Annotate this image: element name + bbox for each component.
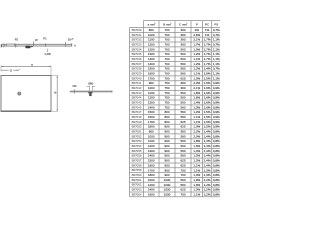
svg-text:1,2%: 1,2% <box>204 178 211 182</box>
drain detail floor line bottom <box>70 91 113 93</box>
svg-text:750: 750 <box>164 105 169 109</box>
svg-text:2,2%: 2,2% <box>193 130 200 134</box>
svg-text:2,3%: 2,3% <box>193 81 200 85</box>
plan drain outer circle <box>18 92 21 95</box>
svg-text:B97062: B97062 <box>132 183 142 187</box>
svg-text:1,6%: 1,6% <box>204 81 211 85</box>
svg-text:700: 700 <box>180 168 185 172</box>
svg-text:1,4%: 1,4% <box>204 154 211 158</box>
svg-text:1500: 1500 <box>148 67 155 71</box>
svg-text:625: 625 <box>180 159 185 163</box>
svg-text:1%: 1% <box>72 84 77 88</box>
svg-text:360: 360 <box>180 134 185 138</box>
svg-text:B97061: B97061 <box>132 178 142 182</box>
svg-text:B97032: B97032 <box>132 38 142 42</box>
svg-text:360: 360 <box>180 81 185 85</box>
svg-text:1,4%: 1,4% <box>204 139 211 143</box>
plan drain inner circle <box>19 93 20 94</box>
drain detail left tick <box>73 89 75 93</box>
svg-text:B97054: B97054 <box>132 144 142 148</box>
svg-text:1600: 1600 <box>148 163 155 167</box>
svg-text:1,2%: 1,2% <box>193 67 200 71</box>
svg-text:1100: 1100 <box>148 38 155 42</box>
svg-text:1700: 1700 <box>148 76 155 80</box>
svg-text:500: 500 <box>180 96 185 100</box>
dim O line right part <box>13 69 18 71</box>
svg-text:B97038: B97038 <box>132 67 142 71</box>
side view raised rim box <box>7 44 15 46</box>
svg-text:700: 700 <box>164 47 169 51</box>
svg-text:1400: 1400 <box>148 57 155 61</box>
svg-text:500: 500 <box>180 144 185 148</box>
dia90 right extension <box>91 86 93 92</box>
svg-text:800: 800 <box>149 28 154 32</box>
svg-text:1,5%: 1,5% <box>193 47 200 51</box>
svg-text:0,9%: 0,9% <box>213 110 220 114</box>
svg-text:700: 700 <box>180 192 185 196</box>
svg-text:B97053: B97053 <box>132 139 142 143</box>
svg-text:1,4%: 1,4% <box>204 134 211 138</box>
svg-text:B97034: B97034 <box>132 47 142 51</box>
svg-text:1400: 1400 <box>148 188 155 192</box>
svg-text:B97039: B97039 <box>132 71 142 75</box>
svg-text:1,4%: 1,4% <box>204 149 211 153</box>
svg-text:900: 900 <box>164 163 169 167</box>
svg-text:1300: 1300 <box>148 101 155 105</box>
svg-text:1,3%: 1,3% <box>193 105 200 109</box>
svg-text:1,5%: 1,5% <box>204 120 211 124</box>
svg-text:1,2%: 1,2% <box>193 62 200 66</box>
svg-text:0,8%: 0,8% <box>213 163 220 167</box>
svg-text:PS: PS <box>214 22 218 26</box>
svg-text:1,5%: 1,5% <box>204 110 211 114</box>
svg-text:900: 900 <box>149 81 154 85</box>
svg-text:800: 800 <box>164 125 169 129</box>
side view tick t1 <box>3 44 5 48</box>
svg-text:1,6%: 1,6% <box>193 144 200 148</box>
svg-text:700: 700 <box>164 42 169 46</box>
svg-text:625: 625 <box>180 120 185 124</box>
svg-text:900: 900 <box>164 159 169 163</box>
svg-text:1300: 1300 <box>148 149 155 153</box>
svg-text:700: 700 <box>164 52 169 56</box>
side view extension line W <box>33 41 35 46</box>
svg-text:750: 750 <box>164 96 169 100</box>
svg-text:900: 900 <box>164 149 169 153</box>
svg-text:1,2%: 1,2% <box>193 159 200 163</box>
svg-text:500: 500 <box>180 52 185 56</box>
dim a right extension line <box>50 65 52 75</box>
svg-text:1,7%: 1,7% <box>204 52 211 56</box>
svg-text:0,9%: 0,9% <box>213 101 220 105</box>
svg-text:B97059: B97059 <box>132 168 142 172</box>
svg-text:1,1%: 1,1% <box>193 57 200 61</box>
svg-text:1,2%: 1,2% <box>193 110 200 114</box>
svg-text:1,3%: 1,3% <box>204 173 211 177</box>
svg-text:0,7%: 0,7% <box>213 33 220 37</box>
side view right end tick <box>71 43 73 46</box>
svg-text:625: 625 <box>180 163 185 167</box>
svg-text:1,1%: 1,1% <box>193 168 200 172</box>
side view tick t2 <box>15 44 17 48</box>
dim a left arrow <box>1 66 3 67</box>
svg-text:0,8%: 0,8% <box>213 149 220 153</box>
svg-text:Ø90: Ø90 <box>88 82 93 86</box>
svg-text:1200: 1200 <box>148 144 155 148</box>
svg-text:1,1%: 1,1% <box>213 57 220 61</box>
svg-text:0,8%: 0,8% <box>213 144 220 148</box>
side view tick t3 <box>44 43 46 47</box>
svg-text:1,1%: 1,1% <box>213 52 220 56</box>
svg-text:B97052: B97052 <box>132 134 142 138</box>
svg-text:1,1%: 1,1% <box>193 120 200 124</box>
dim O line left part <box>1 69 9 71</box>
side view drain outlet tail <box>31 46 33 47</box>
svg-text:1600: 1600 <box>148 115 155 119</box>
svg-text:700: 700 <box>180 173 185 177</box>
svg-text:0,8%: 0,8% <box>213 154 220 158</box>
svg-text:1,5%: 1,5% <box>204 76 211 80</box>
svg-text:B97051: B97051 <box>132 130 142 134</box>
drain detail floor line top <box>70 90 113 92</box>
svg-text:1300: 1300 <box>148 52 155 56</box>
svg-text:0,9%: 0,9% <box>213 91 220 95</box>
svg-text:1): 1) <box>170 23 172 25</box>
svg-text:1,6%: 1,6% <box>204 101 211 105</box>
svg-text:0,8%: 0,8% <box>213 178 220 182</box>
svg-text:1,9%: 1,9% <box>193 178 200 182</box>
svg-text:1,1%: 1,1% <box>193 115 200 119</box>
svg-text:1700: 1700 <box>148 120 155 124</box>
svg-text:900: 900 <box>164 173 169 177</box>
svg-text:0,9%: 0,9% <box>213 81 220 85</box>
svg-text:0,8%: 0,8% <box>213 168 220 172</box>
svg-text:700: 700 <box>164 33 169 37</box>
svg-text:1000: 1000 <box>164 192 171 196</box>
svg-text:0,9%: 0,9% <box>213 86 220 90</box>
svg-text:1): 1) <box>154 23 156 25</box>
svg-text:1,7%: 1,7% <box>204 62 211 66</box>
svg-text:B97058: B97058 <box>132 163 142 167</box>
svg-text:B97046: B97046 <box>132 105 142 109</box>
svg-text:700: 700 <box>164 38 169 42</box>
svg-text:1700: 1700 <box>148 168 155 172</box>
side view tick t4 <box>65 42 67 47</box>
svg-text:1000: 1000 <box>164 188 171 192</box>
side view drain trap blob <box>25 46 30 49</box>
svg-text:B97043: B97043 <box>132 91 142 95</box>
svg-text:B: B <box>53 91 57 93</box>
svg-text:1,1%: 1,1% <box>213 38 220 42</box>
svg-text:500: 500 <box>180 101 185 105</box>
svg-text:360: 360 <box>180 33 185 37</box>
detail right end tick <box>111 91 113 93</box>
svg-text:2,6%: 2,6% <box>193 33 200 37</box>
svg-text:1,1%: 1,1% <box>193 72 200 76</box>
svg-text:1600: 1600 <box>148 72 155 76</box>
svg-text:1000: 1000 <box>148 178 155 182</box>
svg-text:B97041: B97041 <box>132 81 142 85</box>
svg-text:1,2%: 1,2% <box>204 188 211 192</box>
svg-text:1,1%: 1,1% <box>213 47 220 51</box>
svg-text:560: 560 <box>180 183 185 187</box>
svg-text:700: 700 <box>164 57 169 61</box>
svg-text:500: 500 <box>180 139 185 143</box>
svg-text:1000: 1000 <box>148 134 155 138</box>
svg-text:P: P <box>196 22 198 26</box>
table body: article number column <box>132 28 142 196</box>
svg-text:1,4%: 1,4% <box>193 101 200 105</box>
svg-text:900: 900 <box>164 130 169 134</box>
svg-text:800: 800 <box>164 120 169 124</box>
plan view left edge dark <box>0 76 2 112</box>
svg-text:625: 625 <box>180 76 185 80</box>
svg-text:1,8%: 1,8% <box>193 139 200 143</box>
side view left end cap <box>1 44 2 47</box>
svg-text:560: 560 <box>180 62 185 66</box>
svg-text:1,0%: 1,0% <box>44 52 51 56</box>
svg-text:1,2%: 1,2% <box>204 192 211 196</box>
svg-text:B97037: B97037 <box>132 62 142 66</box>
detail drain bottom <box>89 94 92 96</box>
svg-text:1000: 1000 <box>148 33 155 37</box>
side section view: tray bar top line <box>2 43 72 45</box>
svg-text:1000: 1000 <box>148 86 155 90</box>
svg-text:2,0%: 2,0% <box>193 134 200 138</box>
table grid <box>130 21 222 197</box>
svg-text:1200: 1200 <box>148 42 155 46</box>
svg-text:900: 900 <box>164 144 169 148</box>
svg-text:0,8%: 0,8% <box>213 159 220 163</box>
svg-text:900: 900 <box>164 134 169 138</box>
svg-text:1,0%: 1,0% <box>193 173 200 177</box>
svg-text:0,9%: 0,9% <box>213 105 220 109</box>
dim B bottom arrow <box>57 109 58 111</box>
svg-text:560: 560 <box>180 149 185 153</box>
dim B line <box>56 76 58 112</box>
svg-text:750: 750 <box>164 91 169 95</box>
svg-text:0,8%: 0,8% <box>213 192 220 196</box>
svg-text:0,9%: 0,9% <box>213 125 220 129</box>
svg-text:B97033: B97033 <box>132 42 142 46</box>
svg-text:0,8%: 0,8% <box>213 134 220 138</box>
dim B bottom extension <box>51 110 58 112</box>
svg-text:1%: 1% <box>205 33 210 37</box>
svg-text:900: 900 <box>164 139 169 143</box>
svg-text:625: 625 <box>180 125 185 129</box>
svg-text:B97035: B97035 <box>132 52 142 56</box>
svg-text:1,1%: 1,1% <box>213 76 220 80</box>
svg-text:0,8%: 0,8% <box>213 130 220 134</box>
svg-text:1,0%: 1,0% <box>193 125 200 129</box>
svg-text:560: 560 <box>180 72 185 76</box>
svg-text:1,4%: 1,4% <box>204 159 211 163</box>
svg-text:B97060: B97060 <box>132 173 142 177</box>
svg-text:B97049: B97049 <box>132 120 142 124</box>
svg-text:0,7%: 0,7% <box>213 67 220 71</box>
svg-text:1,7%: 1,7% <box>204 42 211 46</box>
svg-text:1600: 1600 <box>148 192 155 196</box>
plan view dim a line <box>1 65 51 67</box>
svg-text:560: 560 <box>180 67 185 71</box>
svg-text:B97048: B97048 <box>132 115 142 119</box>
svg-text:700: 700 <box>164 76 169 80</box>
svg-text:B97055: B97055 <box>132 149 142 153</box>
svg-text:W: W <box>35 38 38 42</box>
svg-text:0,9%: 0,9% <box>213 96 220 100</box>
svg-text:1200: 1200 <box>148 96 155 100</box>
svg-text:1,2%: 1,2% <box>193 52 200 56</box>
svg-text:1000: 1000 <box>164 183 171 187</box>
svg-text:1,9%: 1,9% <box>204 72 211 76</box>
svg-text:B97045: B97045 <box>132 100 142 104</box>
svg-text:B97050: B97050 <box>132 125 142 129</box>
dim a right arrow <box>49 66 51 67</box>
svg-text:900: 900 <box>164 168 169 172</box>
svg-text:B97036: B97036 <box>132 57 142 61</box>
svg-text:1,6%: 1,6% <box>193 183 200 187</box>
svg-text:1,7%: 1,7% <box>204 57 211 61</box>
svg-text:360: 360 <box>180 86 185 90</box>
svg-text:0,8%: 0,8% <box>213 188 220 192</box>
svg-text:2,1%: 2,1% <box>193 86 200 90</box>
svg-text:1500: 1500 <box>148 110 155 114</box>
svg-text:1,7%: 1,7% <box>193 42 200 46</box>
svg-text:1200: 1200 <box>148 183 155 187</box>
svg-text:B97063: B97063 <box>132 188 142 192</box>
svg-text:625: 625 <box>180 188 185 192</box>
svg-text:1,4%: 1,4% <box>204 144 211 148</box>
dim B top extension <box>51 75 58 77</box>
svg-text:0,8%: 0,8% <box>213 173 220 177</box>
svg-text:B97057: B97057 <box>132 159 142 163</box>
svg-text:700: 700 <box>164 28 169 32</box>
svg-text:1100: 1100 <box>148 139 155 143</box>
svg-text:1,3%: 1,3% <box>204 168 211 172</box>
plan view bottom edge thick <box>1 110 52 112</box>
svg-text:2%: 2% <box>195 28 200 32</box>
svg-text:500: 500 <box>180 91 185 95</box>
svg-text:1800: 1800 <box>148 173 155 177</box>
svg-text:360: 360 <box>180 28 185 32</box>
svg-text:1,6%: 1,6% <box>204 86 211 90</box>
svg-text:B97047: B97047 <box>132 110 142 114</box>
svg-text:1800: 1800 <box>148 125 155 129</box>
svg-text:1500: 1500 <box>148 159 155 163</box>
svg-text:360: 360 <box>180 130 185 134</box>
svg-text:750: 750 <box>164 86 169 90</box>
dia90 right arrow line <box>92 86 95 88</box>
svg-text:750: 750 <box>164 101 169 105</box>
svg-text:700: 700 <box>164 72 169 76</box>
svg-text:700: 700 <box>164 62 169 66</box>
svg-text:B97042: B97042 <box>132 86 142 90</box>
side view slope leader tick <box>47 49 49 52</box>
dim B top arrow <box>57 76 58 78</box>
svg-text:1,5%: 1,5% <box>204 115 211 119</box>
svg-text:1,5%: 1,5% <box>204 125 211 129</box>
svg-text:0,9%: 0,9% <box>213 120 220 124</box>
svg-text:0,7%: 0,7% <box>213 28 220 32</box>
svg-text:B97030: B97030 <box>132 28 142 32</box>
svg-text:1400: 1400 <box>148 154 155 158</box>
svg-text:500: 500 <box>180 178 185 182</box>
svg-text:B97056: B97056 <box>132 154 142 158</box>
svg-text:1,6%: 1,6% <box>193 96 200 100</box>
svg-text:B97064: B97064 <box>132 192 142 196</box>
svg-text:500: 500 <box>180 57 185 61</box>
svg-text:B97031: B97031 <box>132 33 142 37</box>
svg-text:1,3%: 1,3% <box>193 76 200 80</box>
detail drain body <box>89 93 91 95</box>
svg-text:1400: 1400 <box>148 105 155 109</box>
svg-text:800: 800 <box>164 110 169 114</box>
svg-text:1,6%: 1,6% <box>204 91 211 95</box>
svg-text:1,1%: 1,1% <box>213 62 220 66</box>
svg-text:1200: 1200 <box>148 47 155 51</box>
svg-text:1,6%: 1,6% <box>204 105 211 109</box>
svg-text:1,4%: 1,4% <box>204 67 211 71</box>
svg-text:360: 360 <box>180 38 185 42</box>
svg-text:P2: P2 <box>15 37 19 41</box>
svg-text:1,3%: 1,3% <box>193 154 200 158</box>
svg-text:360: 360 <box>180 42 185 46</box>
svg-text:PC: PC <box>205 22 209 26</box>
table header row <box>148 22 219 26</box>
svg-text:560: 560 <box>180 115 185 119</box>
svg-text:0,8%: 0,8% <box>213 183 220 187</box>
svg-text:B97040: B97040 <box>132 76 142 80</box>
svg-text:500: 500 <box>180 47 185 51</box>
svg-text:1100: 1100 <box>148 91 155 95</box>
svg-text:1,8%: 1,8% <box>193 91 200 95</box>
svg-text:1,4%: 1,4% <box>204 130 211 134</box>
detail drain flange <box>88 92 92 93</box>
svg-text:800: 800 <box>164 115 169 119</box>
svg-text:1000: 1000 <box>164 178 171 182</box>
table body: value columns <box>148 28 220 196</box>
svg-text:1400: 1400 <box>148 62 155 66</box>
svg-text:1,2%: 1,2% <box>204 183 211 187</box>
svg-text:900: 900 <box>164 154 169 158</box>
svg-text:0,8%: 0,8% <box>213 139 220 143</box>
plan view tray rectangle <box>1 76 51 112</box>
dim O right arrow <box>17 70 19 71</box>
svg-text:1): 1) <box>186 23 188 25</box>
svg-text:1,4%: 1,4% <box>193 149 200 153</box>
svg-text:1,7%: 1,7% <box>204 47 211 51</box>
svg-text:700: 700 <box>164 67 169 71</box>
svg-text:900: 900 <box>149 130 154 134</box>
dim a left extension line <box>0 65 2 71</box>
svg-text:1,1%: 1,1% <box>193 163 200 167</box>
dia90 left extension <box>88 86 90 92</box>
svg-text:1,4%: 1,4% <box>204 163 211 167</box>
svg-text:P1: P1 <box>43 36 47 40</box>
dim O leader slash <box>19 69 20 71</box>
svg-text:1,3%: 1,3% <box>193 188 200 192</box>
svg-text:1,7%: 1,7% <box>204 38 211 42</box>
svg-text:1,1%: 1,1% <box>213 72 220 76</box>
svg-text:B97044: B97044 <box>132 96 142 100</box>
svg-text:560: 560 <box>180 105 185 109</box>
svg-text:1%: 1% <box>205 28 210 32</box>
svg-text:1,6%: 1,6% <box>204 96 211 100</box>
svg-text:560: 560 <box>180 110 185 114</box>
svg-text:0,7%: 0,7% <box>213 42 220 46</box>
svg-text:750: 750 <box>164 81 169 85</box>
dia90 left arrow line <box>87 86 90 88</box>
